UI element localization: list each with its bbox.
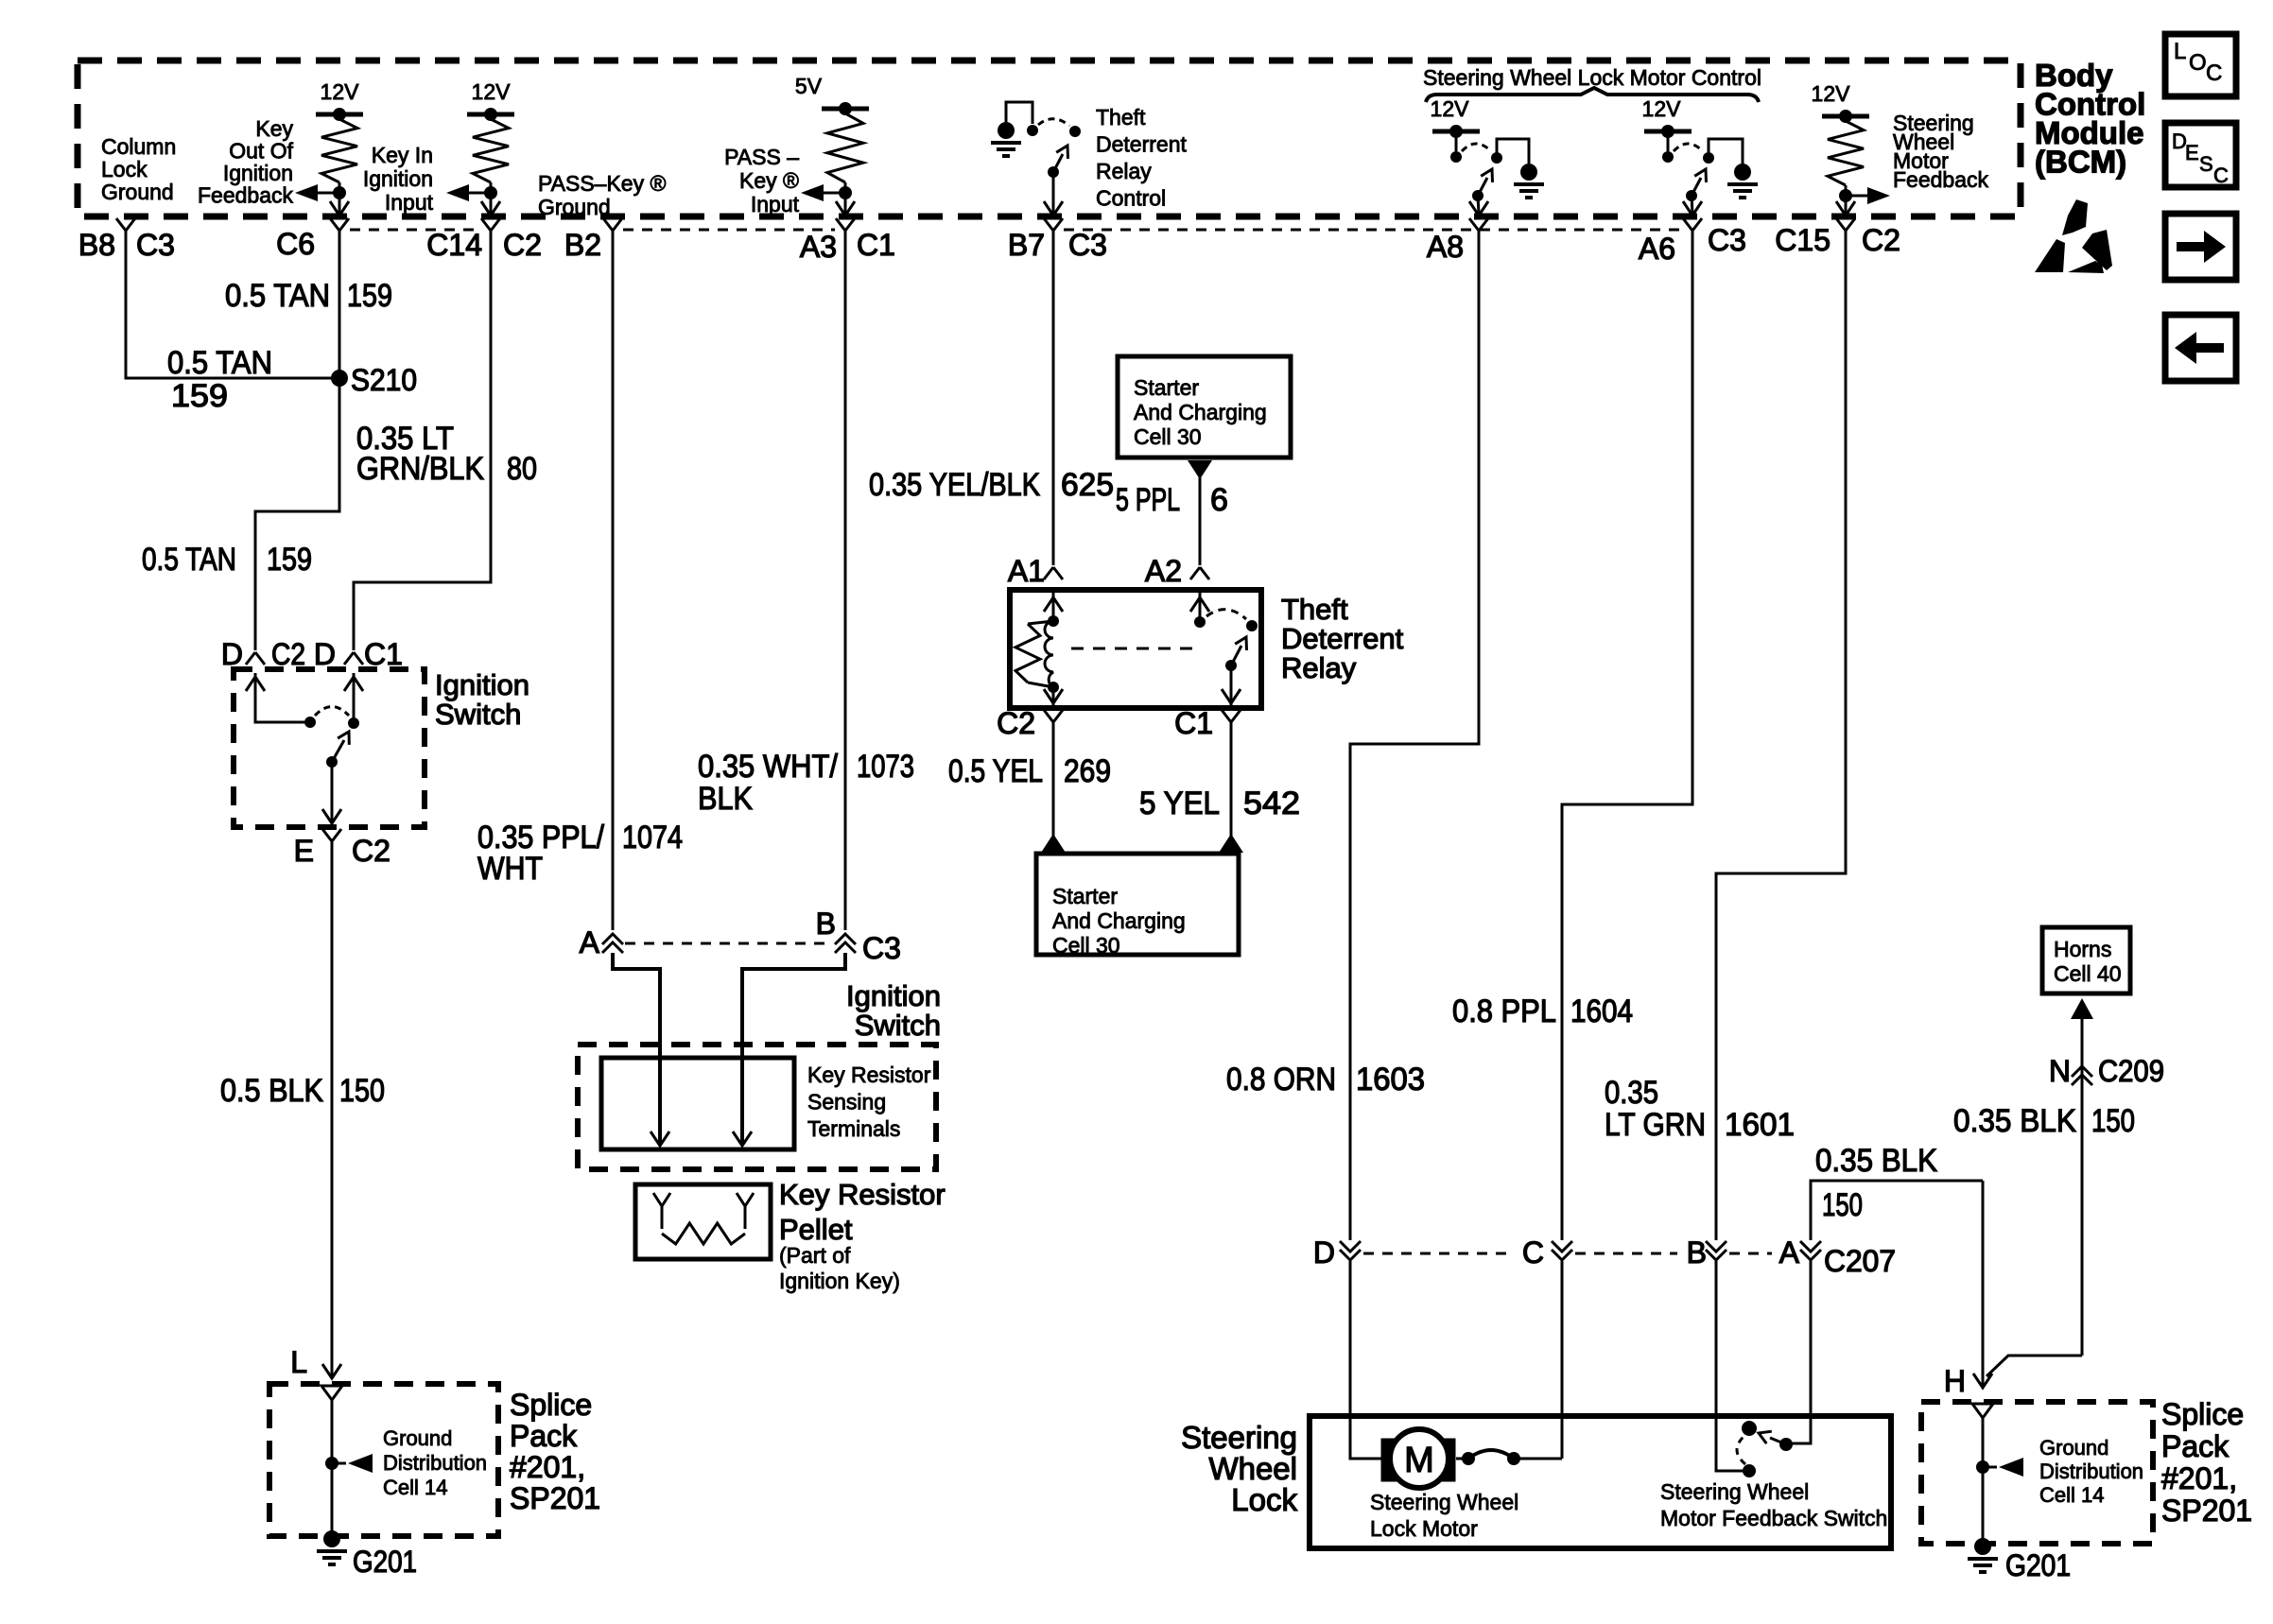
svg-text:0.8 PPL: 0.8 PPL [1452,993,1556,1029]
svg-text:Lock: Lock [101,157,147,181]
S7 lever [1686,190,1697,201]
Starter And Charging Cell 30 box lower [1036,854,1239,955]
connector C207 pin B [1706,1241,1726,1252]
relay actuation dashed link [1071,648,1198,650]
connector C3 pin B and label [835,934,856,944]
svg-text:D: D [221,637,243,671]
wire C15 to connector C207 B [1716,231,1846,1240]
relay switch leg from A2 [1199,593,1202,622]
S6 ground [1520,164,1537,181]
connector C207 pin D [1340,1241,1361,1252]
feedback switch fixed contact [1742,1421,1757,1436]
svg-text:Distribution: Distribution [2039,1460,2143,1483]
svg-text:C2: C2 [1862,223,1900,257]
ignition switch lever [326,756,338,768]
svg-text:Theft: Theft [1281,593,1348,626]
svg-text:Input: Input [385,190,434,215]
svg-text:LT GRN: LT GRN [1605,1107,1706,1143]
wire A8 to connector C207 D [1350,231,1479,1240]
svg-text:269: 269 [1064,753,1111,789]
svg-text:6: 6 [1210,482,1228,518]
svg-text:G201: G201 [2005,1548,2071,1582]
svg-text:WHT: WHT [477,851,543,887]
wire connector C3 B to key resistor sensing terminal right [742,953,845,1144]
svg-text:C: C [2206,60,2222,86]
svg-text:C14: C14 [426,228,482,262]
svg-text:5 PPL: 5 PPL [1116,482,1180,518]
svg-text:1601: 1601 [1725,1107,1795,1143]
svg-text:Key In: Key In [372,143,433,167]
svg-text:Key ®: Key ® [739,168,799,193]
arrow to Key In Ignition Input [469,192,491,195]
svg-text:Steering Wheel: Steering Wheel [1370,1490,1518,1514]
wire N C209 to horns cell 40 [2081,1019,2084,1356]
wire C207 D to steering wheel lock motor [1350,1261,1382,1459]
arrow ground distribution cell 14 right [1988,1466,1997,1469]
relay coil parallel resistor [1028,621,1053,624]
svg-text:Wheel: Wheel [1208,1451,1297,1486]
svg-text:159: 159 [347,278,392,314]
ignition switch key sensing dashed box [578,1045,936,1169]
svg-text:Ignition Key): Ignition Key) [779,1269,900,1293]
wire S6 to BCM edge pin A8 [1478,196,1479,214]
svg-text:625: 625 [1061,467,1114,503]
svg-text:12V: 12V [1812,81,1851,106]
connector pin A6 C3 [1683,218,1692,231]
svg-text:C: C [2213,164,2229,187]
wire R2 node to BCM edge [490,193,493,214]
svg-text:Out Of: Out Of [229,139,293,164]
svg-text:M: M [1404,1441,1434,1480]
svg-text:A3: A3 [800,230,837,264]
S6 lever [1472,190,1484,201]
svg-text:0.5 YEL: 0.5 YEL [948,753,1043,789]
svg-text:Feedback: Feedback [1893,167,1989,192]
svg-text:Ground: Ground [538,195,611,219]
svg-text:Switch: Switch [435,698,521,731]
svg-text:0.5 TAN: 0.5 TAN [142,542,236,578]
svg-text:#201,: #201, [2161,1461,2237,1495]
svg-text:Column: Column [101,134,176,159]
svg-text:B: B [1687,1235,1707,1270]
svg-text:0.35 YEL/BLK: 0.35 YEL/BLK [869,467,1040,503]
motor switch contact to C leg [1514,1458,1562,1460]
svg-text:Ground: Ground [101,180,174,204]
svg-text:C3: C3 [862,931,901,965]
svg-text:PASS–Key ®: PASS–Key ® [538,171,666,196]
svg-text:Splice: Splice [2161,1397,2244,1431]
svg-text:0.5 TAN: 0.5 TAN [167,345,272,381]
relay pin A2 [1190,567,1200,579]
svg-text:GRN/BLK: GRN/BLK [356,451,484,487]
motor switch contact left [1456,1458,1464,1460]
svg-text:C2: C2 [503,228,542,262]
svg-text:E: E [294,834,314,868]
svg-text:Horns: Horns [2054,937,2111,961]
svg-text:SP201: SP201 [2161,1494,2252,1528]
svg-text:Key Resistor: Key Resistor [807,1063,931,1087]
svg-text:C2: C2 [352,834,390,868]
splice pack entry triangle left [321,1386,342,1400]
svg-text:C3: C3 [136,228,175,262]
svg-text:0.35 BLK: 0.35 BLK [1815,1143,1937,1179]
svg-text:Deterrent: Deterrent [1281,622,1404,655]
left-arrow legend box [2165,315,2236,381]
svg-text:Cell 14: Cell 14 [383,1476,447,1499]
svg-text:C1: C1 [857,228,895,262]
wire 0.35 BLK 150 to connector C207 A [1811,1181,1983,1240]
relay pin C1 [1222,710,1231,722]
svg-text:Lock: Lock [1231,1482,1297,1517]
Horns Cell 40 box [2042,927,2130,993]
arrow to Key Out Of Ignition Feedback [318,192,339,195]
ignition switch contact arc [315,707,349,717]
right-arrow legend box [2165,214,2236,280]
wire C207 B to feedback switch [1716,1261,1744,1471]
svg-text:Ground: Ground [383,1426,452,1450]
svg-text:C6: C6 [276,227,315,261]
svg-text:5 YEL: 5 YEL [1139,786,1220,821]
svg-text:C1: C1 [1174,706,1213,740]
switch S5 lever [1053,154,1063,172]
ignition switch wire to E C2 [331,762,334,821]
svg-text:Starter: Starter [1052,884,1118,908]
svg-text:1604: 1604 [1570,993,1633,1029]
connector pin D C2 ignition switch [246,652,255,665]
svg-text:5V: 5V [795,74,823,98]
connector C1 dashed link B2-A3 [623,229,835,232]
arrow from starter cell to relay A2 [1188,460,1212,479]
wire R4 node to BCM edge pin C15 [1845,196,1848,214]
wire B2 PASS-Key ground to connector C3 A [612,231,615,930]
svg-text:C15: C15 [1775,223,1831,257]
svg-text:L: L [290,1345,307,1379]
ground G201 right [1974,1538,1991,1555]
wire relay C2 to starter cell [1052,722,1055,851]
svg-text:B8: B8 [78,228,115,262]
svg-text:0.5 TAN: 0.5 TAN [225,278,330,314]
wire R3 node to BCM edge [844,193,847,214]
wire C14 jog to ignition switch D C1 [354,231,491,650]
ground G201 left [323,1530,340,1547]
connector C209 pin N [2072,1066,2092,1077]
key resistor sensing terminals solid box [601,1058,794,1149]
svg-text:Pack: Pack [510,1419,578,1453]
svg-text:Deterrent: Deterrent [1096,132,1187,157]
svg-text:S: S [2199,152,2213,176]
Key Resistor Pellet box [635,1184,771,1259]
svg-text:Ignition: Ignition [435,668,529,701]
svg-text:0.5 BLK: 0.5 BLK [220,1073,323,1109]
relay switch to pin C1 [1230,665,1233,705]
svg-text:150: 150 [2091,1103,2135,1139]
splice pack entry triangle right [1972,1404,1993,1418]
Steering Wheel Lock box [1310,1416,1891,1548]
svg-text:C3: C3 [1708,223,1746,257]
connector pin B8 C3 [116,218,126,231]
ignition switch internal wire D C1 leg [344,677,363,691]
svg-text:H: H [1944,1364,1966,1398]
svg-text:A: A [1779,1235,1800,1270]
svg-text:A2: A2 [1145,554,1182,588]
svg-text:Starter: Starter [1134,375,1199,400]
svg-text:And Charging: And Charging [1052,908,1186,933]
svg-text:A6: A6 [1639,232,1675,266]
wire C207 A to feedback switch lever [1790,1261,1811,1443]
svg-text:Motor Feedback Switch: Motor Feedback Switch [1660,1506,1887,1530]
svg-text:0.35: 0.35 [1605,1075,1658,1111]
svg-text:And Charging: And Charging [1134,400,1267,424]
brace under Steering Wheel Lock Motor Control [1426,88,1759,102]
svg-text:12V: 12V [321,79,360,104]
relay switch contact arc [1206,610,1246,619]
connector pin D C1 ignition switch [344,652,354,665]
svg-text:Pack: Pack [2161,1429,2230,1463]
S7 ground [1734,164,1751,181]
relay coil leg from A1 [1052,593,1055,621]
key resistor pellet terminal forks [653,1193,662,1206]
feedback switch contact arc [1737,1435,1745,1464]
svg-text:Distribution: Distribution [383,1451,487,1475]
ESD sensitive device symbol [2035,199,2112,273]
svg-text:542: 542 [1243,786,1300,821]
connector C3 pin A [602,934,623,944]
connector pin C15 C2 [1836,218,1846,231]
connector C3 dashed line [625,942,832,945]
svg-text:0.35 BLK: 0.35 BLK [1953,1103,2076,1139]
svg-text:Splice: Splice [510,1388,592,1422]
feedback switch lever [1779,1438,1793,1451]
svg-text:12V: 12V [472,79,512,104]
svg-text:BLK: BLK [698,781,753,817]
svg-text:C209: C209 [2098,1054,2164,1088]
svg-text:12V: 12V [1431,96,1470,121]
svg-text:PASS –: PASS – [724,145,799,169]
wire R1 node to BCM edge [338,193,341,214]
svg-text:C2: C2 [997,706,1035,740]
Starter And Charging Cell 30 box upper [1118,356,1291,458]
arrow to Steering Wheel Motor Feedback label [1846,195,1867,198]
svg-text:80: 80 [507,451,537,487]
Body Control Module (BCM) dashed box [78,60,2021,216]
relay pin A1 [1044,567,1053,579]
wire N C209 join to H [1987,1356,2082,1376]
svg-text:(BCM): (BCM) [2035,145,2126,180]
wire B8 column lock ground [126,231,333,378]
wire S210 down-jog to ignition switch D C2 [255,378,339,650]
connector pin B7 C3 [1044,218,1053,231]
svg-text:SP201: SP201 [510,1481,600,1515]
svg-text:C2: C2 [271,637,305,671]
relay switch lever [1225,660,1237,671]
svg-text:0.8 ORN: 0.8 ORN [1226,1062,1336,1097]
S6 contact arc [1462,144,1491,151]
svg-text:Ignition: Ignition [223,161,293,185]
Ignition Switch dashed box [234,669,425,827]
DESC legend box [2165,123,2236,187]
Theft Deterrent Relay box [1010,590,1261,708]
motor switch closed contact arc [1468,1450,1514,1459]
connector pin E C2 [322,829,332,841]
connector C207 dashed line [1363,1253,1509,1255]
svg-text:Cell 30: Cell 30 [1052,933,1120,958]
svg-text:D: D [314,637,336,671]
steering wheel lock motor M [1381,1439,1455,1481]
svg-text:Theft: Theft [1096,105,1146,130]
svg-text:Cell 14: Cell 14 [2039,1483,2104,1507]
svg-text:B: B [816,907,836,941]
wire S5 to BCM edge pin B7 [1052,172,1055,214]
svg-text:(Part of: (Part of [779,1243,851,1268]
svg-text:Ignition: Ignition [846,979,941,1012]
svg-text:12V: 12V [1642,96,1682,121]
svg-text:L: L [2174,39,2186,64]
arrow to PASS-Key Input [824,192,845,195]
svg-text:159: 159 [171,378,228,414]
connector pin A3 C1 [836,218,845,231]
svg-text:150: 150 [1822,1187,1863,1223]
svg-text:0.35 WHT/: 0.35 WHT/ [698,749,838,785]
svg-text:E: E [2185,141,2199,164]
ignition switch internal wire D C2 leg [246,677,265,691]
svg-text:C: C [1522,1235,1544,1270]
svg-text:O: O [2189,50,2207,76]
wire S7 to BCM edge pin A6 [1692,196,1692,214]
connector C3 dashed link B7-A6 [1064,229,1681,232]
svg-text:Switch: Switch [855,1009,941,1042]
svg-text:C1: C1 [364,637,403,671]
ground distribution junction right [1976,1460,1989,1474]
S7 contact arc [1674,144,1703,151]
S7 ground bracket [1709,139,1743,164]
connector C207 pin A [1800,1241,1821,1252]
wire relay C1 to starter cell [1230,722,1233,851]
splice S210 [331,370,348,387]
wire C207 C to motor switch [1561,1261,1564,1459]
svg-text:Relay: Relay [1281,651,1357,684]
svg-text:Lock Motor: Lock Motor [1370,1516,1478,1541]
key resistor pellet resistor [662,1223,745,1244]
svg-text:A8: A8 [1427,230,1464,264]
S6 ground bracket [1497,139,1529,164]
connector C2 dashed link C6-C14 [350,229,480,232]
connector pin A8 [1469,218,1479,231]
wire B7 to relay A1 [1052,231,1055,565]
wire A6 to connector C207 C [1562,231,1692,1240]
relay pin C2 [1044,710,1053,722]
svg-text:B7: B7 [1008,228,1045,262]
svg-text:1074: 1074 [622,820,683,855]
svg-text:Control: Control [1096,186,1166,211]
svg-text:Ignition: Ignition [363,166,433,191]
connector pin B2 [603,218,613,231]
svg-text:Steering Wheel Lock Motor Cont: Steering Wheel Lock Motor Control [1423,65,1761,90]
svg-text:Terminals: Terminals [807,1116,900,1141]
svg-text:A1: A1 [1008,554,1045,588]
theft deterrent relay control driver ground [998,122,1015,139]
connector pin C14 C2 [481,218,491,231]
svg-text:A: A [580,925,600,959]
svg-text:C207: C207 [1824,1244,1896,1278]
wire ground to switch contact [1006,102,1032,124]
wire C6 to S210 [338,231,341,378]
ground distribution junction left [325,1457,338,1470]
connector C207 pin C [1552,1241,1572,1252]
svg-text:Key: Key [255,116,293,141]
svg-text:Relay: Relay [1096,159,1152,183]
wire starter cell to relay A2 [1199,477,1202,565]
svg-text:Input: Input [751,192,800,216]
svg-text:Ground: Ground [2039,1436,2108,1460]
svg-text:1073: 1073 [857,749,914,785]
wire C207 A ground jog to splice pack H [1982,1181,1985,1386]
svg-text:150: 150 [339,1073,385,1109]
switch S5 theft deterrent relay control contact arc [1038,119,1069,126]
svg-text:Cell 40: Cell 40 [2054,961,2122,986]
wire E C2 to splice pack L [331,841,334,1375]
connector pin C6 [330,218,339,231]
splice pack internal wire right [1982,1418,1985,1546]
arrow into starter cell from C2 [1041,834,1066,853]
svg-text:159: 159 [267,542,312,578]
relay coil [1045,621,1053,687]
svg-text:Cell 30: Cell 30 [1134,424,1202,449]
svg-text:Pellet: Pellet [779,1213,853,1246]
svg-text:#201,: #201, [510,1450,585,1484]
svg-text:D: D [1313,1235,1335,1270]
svg-text:S210: S210 [351,363,417,397]
svg-text:Sensing: Sensing [807,1090,886,1114]
svg-text:Key Resistor: Key Resistor [779,1178,946,1211]
arrow ground distribution cell 14 left [338,1462,346,1465]
Splice Pack ground distribution dashed box right [1921,1402,2153,1544]
svg-text:C3: C3 [1068,228,1107,262]
svg-text:G201: G201 [353,1545,417,1579]
svg-text:Steering Wheel: Steering Wheel [1660,1479,1809,1504]
svg-text:Steering: Steering [1181,1420,1297,1455]
Splice Pack ground distribution dashed box left [269,1384,498,1536]
relay coil to pin C2 [1052,687,1055,705]
svg-text:B2: B2 [564,228,601,262]
wire A3 PASS-Key input to connector C3 B [844,231,847,930]
svg-text:1603: 1603 [1356,1062,1425,1097]
svg-text:Feedback: Feedback [198,183,294,208]
LOC legend box [2165,34,2236,96]
splice pack internal wire left [331,1400,334,1539]
svg-text:N: N [2049,1054,2071,1088]
wire connector C3 A to key resistor sensing terminal left [613,953,660,1144]
arrow into starter cell from C1 [1219,834,1243,853]
